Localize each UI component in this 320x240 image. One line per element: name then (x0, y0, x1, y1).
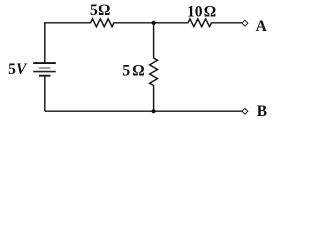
svg-text:Ω: Ω (132, 62, 144, 79)
svg-text:5: 5 (90, 2, 98, 19)
svg-text:Ω: Ω (98, 2, 110, 19)
svg-text:A: A (256, 18, 268, 35)
svg-text:B: B (257, 103, 267, 120)
svg-text:5: 5 (8, 61, 16, 78)
svg-text:10: 10 (187, 3, 203, 20)
svg-text:5: 5 (122, 62, 130, 79)
svg-text:V: V (16, 61, 28, 78)
svg-text:Ω: Ω (204, 3, 216, 20)
